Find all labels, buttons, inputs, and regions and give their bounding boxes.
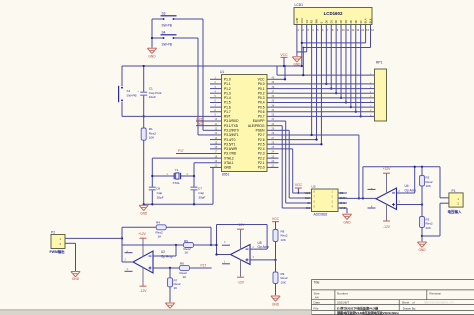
svg-text:CLK: CLK [305,196,311,200]
svg-text:DI: DI [307,201,310,205]
svg-text:VCC: VCC [258,78,266,82]
svg-text:E: E [320,21,324,23]
svg-text:P0.7: P0.7 [258,115,265,119]
svg-text:P0.0: P0.0 [258,82,265,86]
svg-text:D1: D1 [329,20,333,24]
svg-text:P2.7: P2.7 [258,133,265,137]
svg-text:D7: D7 [359,20,363,24]
svg-text:@myschematics_cn: @myschematics_cn [424,301,454,305]
svg-text:Revision: Revision [429,292,441,296]
svg-text:BLK: BLK [369,18,373,23]
svg-text:P1.6: P1.6 [224,105,231,109]
svg-text:S1: S1 [127,89,131,93]
svg-text:RST: RST [224,115,231,119]
svg-text:RP1: RP1 [376,61,383,65]
svg-text:D5: D5 [349,20,353,24]
svg-text:10K: 10K [426,184,431,188]
svg-text:Cap: Cap [157,191,163,195]
svg-text:File: File [314,306,319,310]
svg-text:D6: D6 [354,20,358,24]
svg-text:LCD1602: LCD1602 [324,11,343,16]
svg-text:P2.1: P2.1 [258,161,265,165]
svg-text:P1.5: P1.5 [224,101,231,105]
svg-text:30pF: 30pF [157,195,164,199]
svg-text:Y1: Y1 [175,168,179,172]
svg-text:VCC: VCC [272,217,280,221]
svg-text:PWM输出: PWM输出 [50,249,66,254]
svg-text:P1.7: P1.7 [224,110,231,114]
svg-text:A4: A4 [315,295,319,299]
svg-text:VCC: VCC [280,53,288,57]
svg-text:D2: D2 [334,20,338,24]
svg-text:P3.4/T0: P3.4/T0 [224,138,236,142]
svg-text:U1: U1 [220,70,224,74]
svg-text:PSEN: PSEN [256,129,266,133]
svg-text:Number: Number [337,292,348,296]
svg-text:P0.5: P0.5 [258,105,265,109]
svg-text:GND: GND [72,277,80,281]
svg-text:TXD: TXD [197,122,204,126]
svg-text:10K: 10K [149,136,155,140]
svg-text:P2: P2 [51,231,55,235]
svg-text:P2.0: P2.0 [258,166,265,170]
svg-text:+: + [137,89,139,93]
svg-text:GND: GND [140,212,148,216]
svg-text:R5: R5 [184,239,188,243]
svg-text:R4: R4 [156,220,160,224]
svg-text:C8: C8 [156,187,160,191]
svg-text:D3: D3 [339,20,343,24]
svg-text:P2.2: P2.2 [258,156,265,160]
svg-text:10K: 10K [281,280,286,284]
svg-text:XTAL2: XTAL2 [224,156,234,160]
svg-text:-12V: -12V [140,289,148,293]
svg-text:XTAL1: XTAL1 [224,161,234,165]
svg-text:D0: D0 [324,20,328,24]
svg-text:P0.4: P0.4 [258,101,265,105]
svg-text:P17: P17 [201,263,207,267]
svg-text:CH1: CH1 [340,201,346,205]
svg-text:ALE/PROG: ALE/PROG [248,124,265,128]
svg-text:30pF: 30pF [198,195,205,199]
svg-text:EA/VPP: EA/VPP [253,119,265,123]
svg-text:SW-PB: SW-PB [127,94,137,98]
svg-text:P1: P1 [452,189,456,193]
svg-text:Cap: Cap [198,191,204,195]
svg-text:-12V: -12V [383,225,391,229]
svg-text:RXD: RXD [197,117,204,121]
svg-text:8051: 8051 [222,172,230,176]
svg-text:E:\学习\2021下\电压监测V4.3\原: E:\学习\2021下\电压监测V4.3\原 [337,305,379,310]
svg-text:P0.1: P0.1 [258,87,265,91]
svg-text:U3: U3 [312,185,316,189]
svg-text:XTAL: XTAL [173,181,181,185]
svg-text:of: of [412,301,415,305]
svg-text:P3.1/TXD: P3.1/TXD [224,124,239,128]
svg-text:Op Amp: Op Amp [161,255,173,259]
svg-text:P1.2: P1.2 [224,87,231,91]
svg-text:2021/6/7: 2021/6/7 [337,301,349,305]
svg-text:Title: Title [313,280,319,284]
svg-text:GND: GND [295,18,299,24]
svg-text:S3: S3 [162,11,166,15]
svg-text:LCD1: LCD1 [295,3,304,7]
svg-text:10K: 10K [426,226,431,230]
svg-text:C7: C7 [198,187,202,191]
svg-text:P1.3: P1.3 [224,91,231,95]
svg-text:GND: GND [418,248,426,252]
svg-text:Sheet: Sheet [402,301,410,305]
svg-text:P0.6: P0.6 [258,110,265,114]
svg-text:BLA: BLA [364,18,368,23]
svg-text:电压输入: 电压输入 [448,209,462,214]
svg-text:P1.0: P1.0 [224,78,231,82]
svg-text:VCC: VCC [300,18,304,24]
svg-text:P3.7/RD: P3.7/RD [224,152,237,156]
svg-text:VO: VO [305,20,309,24]
svg-text:+12V: +12V [237,223,246,227]
svg-text:P0.2: P0.2 [258,91,265,95]
svg-text:理图\电压监测V4.3\电压监测电压监V43.SchDoc: 理图\电压监测V4.3\电压监测电压监V43.SchDoc [337,310,399,315]
svg-text:VCC: VCC [295,183,303,187]
svg-text:P2.3: P2.3 [258,152,265,156]
svg-text:GND: GND [340,206,346,210]
svg-text:P17: P17 [178,149,184,153]
svg-text:P3.3/INT1: P3.3/INT1 [224,133,239,137]
svg-text:P2.5: P2.5 [258,142,265,146]
svg-text:P3.2/INT0: P3.2/INT0 [224,129,239,133]
svg-text:VCC: VCC [304,191,310,195]
svg-text:+12V: +12V [138,232,147,236]
svg-text:10uF: 10uF [149,95,156,99]
svg-text:S4: S4 [162,30,166,34]
svg-text:SW-PB: SW-PB [162,43,172,47]
svg-text:P3.0/RXD: P3.0/RXD [224,119,239,123]
svg-text:10K: 10K [281,238,286,242]
svg-text:GND: GND [272,302,280,306]
svg-text:RS: RS [310,20,314,24]
svg-text:ADC0832: ADC0832 [314,212,328,216]
svg-text:P2.6: P2.6 [258,138,265,142]
svg-text:GND: GND [343,220,351,224]
svg-text:P3.5/T1: P3.5/T1 [224,142,236,146]
svg-text:CS: CS [340,191,344,195]
svg-text:P3.6/WR: P3.6/WR [224,147,238,151]
svg-text:R6: R6 [180,261,184,265]
svg-text:P2.4: P2.4 [258,147,265,151]
svg-text:P1.4: P1.4 [224,96,231,100]
svg-text:Date: Date [314,301,321,305]
svg-text:U2: U2 [161,250,165,254]
svg-text:SW-PB: SW-PB [162,24,172,28]
svg-text:GND: GND [148,55,156,59]
svg-text:P1.1: P1.1 [224,82,231,86]
svg-text:U4: U4 [405,184,409,188]
svg-text:GND: GND [293,63,301,67]
svg-text:D4: D4 [344,20,348,24]
svg-text:1K: 1K [174,286,178,290]
svg-text:GND: GND [224,166,232,170]
svg-text:RW: RW [315,19,319,24]
svg-text:P0.3: P0.3 [258,96,265,100]
svg-text:Drawn By:: Drawn By: [403,307,417,311]
svg-text:+12V: +12V [383,167,392,171]
svg-text:-12V: -12V [237,280,245,284]
